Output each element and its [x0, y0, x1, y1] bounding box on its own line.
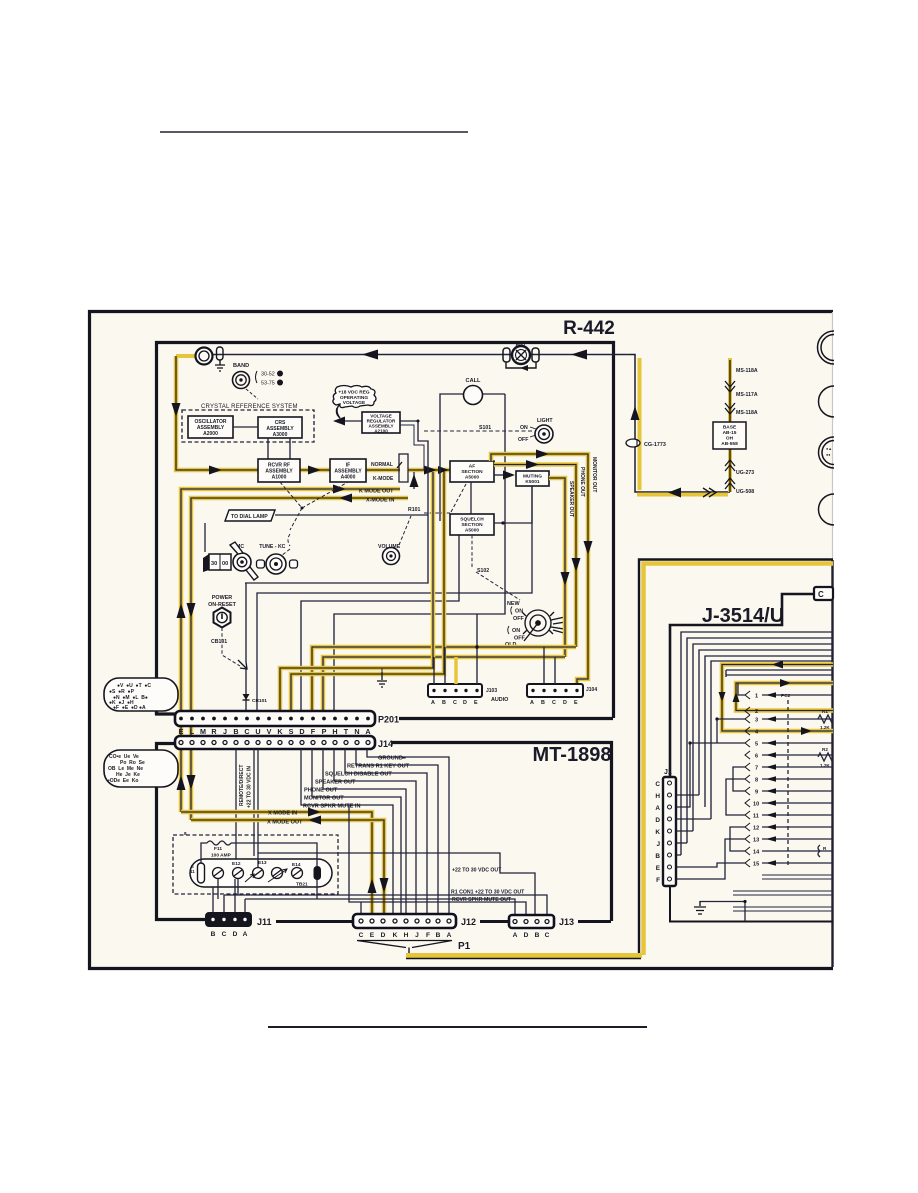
svg-text:•ODe Ee Ko: •ODe Ee Ko — [108, 778, 138, 784]
svg-text:POWER: POWER — [212, 595, 232, 601]
svg-text:C: C — [222, 931, 227, 938]
svg-text:13: 13 — [753, 838, 759, 844]
svg-text:F: F — [426, 932, 430, 939]
svg-text:15: 15 — [753, 862, 759, 868]
svg-text:⎓: ⎓ — [402, 756, 406, 761]
svg-text:K: K — [655, 829, 660, 836]
svg-text:B: B — [655, 853, 660, 860]
svg-text:C: C — [453, 700, 457, 706]
svg-text:E: E — [179, 727, 184, 736]
svg-text:TB21: TB21 — [296, 882, 308, 888]
svg-text:S102: S102 — [477, 568, 489, 574]
svg-text:J103: J103 — [486, 688, 497, 694]
svg-text:AUDIO: AUDIO — [491, 697, 508, 703]
svg-text:NEW: NEW — [507, 601, 520, 607]
svg-text:TUNE - KC: TUNE - KC — [252, 544, 286, 550]
svg-text:MS-118A: MS-118A — [736, 410, 758, 416]
svg-text:●F ●E ●D ●A: ●F ●E ●D ●A — [113, 705, 146, 711]
svg-text:C: C — [655, 781, 660, 788]
svg-text:D: D — [381, 932, 386, 939]
svg-text:6: 6 — [755, 754, 758, 760]
svg-text:PC2: PC2 — [781, 693, 791, 699]
svg-text:V: V — [267, 727, 272, 736]
svg-text:H: H — [655, 793, 660, 800]
svg-text:SQUELCH DISABLE OUT: SQUELCH DISABLE OUT — [325, 772, 392, 778]
svg-text:00: 00 — [222, 561, 228, 567]
svg-text:REMOTE/DIRECT: REMOTE/DIRECT — [239, 765, 245, 806]
svg-text:D: D — [463, 700, 467, 706]
svg-text:A3000: A3000 — [273, 432, 288, 438]
svg-text:MT-1898: MT-1898 — [533, 744, 612, 766]
svg-text:RCVR SPKR MUTE IN: RCVR SPKR MUTE IN — [303, 804, 361, 810]
svg-text:NORMAL: NORMAL — [371, 462, 393, 468]
svg-text:H: H — [332, 727, 337, 736]
svg-text:L: L — [190, 727, 195, 736]
svg-text:VOLTAGE: VOLTAGE — [343, 400, 366, 406]
svg-text:CR101: CR101 — [252, 698, 267, 704]
svg-text:10: 10 — [753, 802, 759, 808]
svg-text:UG-508: UG-508 — [736, 489, 754, 495]
svg-text:E: E — [370, 932, 375, 939]
svg-text:LIGHT: LIGHT — [537, 418, 553, 424]
svg-text:OFF: OFF — [514, 636, 525, 642]
svg-text:A: A — [447, 932, 452, 939]
svg-text:C: C — [552, 700, 556, 706]
svg-text:A2100: A2100 — [374, 429, 388, 434]
svg-text:P1: P1 — [458, 941, 471, 952]
svg-text:SECTION: SECTION — [461, 522, 483, 528]
svg-text:S: S — [289, 727, 294, 736]
svg-text:A: A — [243, 931, 248, 938]
svg-text:RETRANS R1 KEY OUT: RETRANS R1 KEY OUT — [347, 764, 410, 770]
svg-text:R: R — [211, 727, 217, 736]
svg-text:K: K — [393, 932, 398, 939]
svg-text:P: P — [322, 727, 327, 736]
svg-text:B: B — [278, 381, 281, 386]
svg-text:ON: ON — [512, 628, 520, 634]
svg-text:J1: J1 — [664, 769, 672, 776]
svg-text:D: D — [233, 931, 238, 938]
svg-text:H: H — [404, 932, 409, 939]
svg-text:D: D — [524, 932, 529, 939]
svg-text:K: K — [277, 727, 283, 736]
svg-text:D: D — [563, 700, 567, 706]
svg-text:RCVR SPKR MUTE OUT: RCVR SPKR MUTE OUT — [452, 897, 512, 903]
svg-text:C: C — [545, 932, 550, 939]
svg-text:CALL: CALL — [466, 378, 481, 384]
svg-text:E14: E14 — [292, 862, 301, 868]
svg-text:N: N — [354, 727, 359, 736]
svg-text:A2000: A2000 — [203, 431, 218, 437]
svg-text:1.2K: 1.2K — [820, 763, 830, 768]
svg-text:OFF: OFF — [513, 616, 524, 622]
svg-text:A: A — [365, 727, 370, 736]
svg-text:R2: R2 — [822, 747, 828, 752]
svg-text:J: J — [415, 932, 419, 939]
svg-text:1: 1 — [755, 694, 758, 700]
svg-text:OH: OH — [726, 436, 734, 442]
svg-text:BASE: BASE — [723, 425, 737, 431]
svg-text:J: J — [656, 841, 660, 848]
svg-text:A4000: A4000 — [341, 475, 356, 481]
svg-text:C: C — [818, 590, 824, 599]
svg-text:R1 CON1 +22 TO 30 VDC OUT: R1 CON1 +22 TO 30 VDC OUT — [451, 890, 525, 896]
svg-text:100 AMP: 100 AMP — [211, 853, 232, 859]
svg-text:7: 7 — [755, 766, 758, 772]
svg-text:AF: AF — [469, 464, 475, 470]
svg-text:OFF: OFF — [518, 437, 528, 443]
svg-text:A: A — [431, 700, 435, 706]
svg-text:+18 VDC REG: +18 VDC REG — [338, 390, 370, 396]
svg-text:R1: R1 — [822, 709, 828, 714]
svg-text:MONITOR OUT: MONITOR OUT — [591, 457, 597, 492]
svg-text:B: B — [541, 700, 545, 706]
svg-text:B: B — [436, 932, 441, 939]
svg-text:8: 8 — [184, 831, 187, 836]
svg-text:CRYSTAL REFERENCE SYSTEM: CRYSTAL REFERENCE SYSTEM — [201, 404, 298, 410]
svg-text:30-52: 30-52 — [261, 372, 275, 378]
svg-text:J14: J14 — [378, 739, 393, 749]
svg-text:UG-273: UG-273 — [736, 470, 754, 476]
svg-text:SQUELCH: SQUELCH — [460, 517, 484, 523]
svg-text:11: 11 — [753, 814, 759, 820]
svg-text:SECTION: SECTION — [461, 469, 483, 475]
svg-text:A1000: A1000 — [272, 475, 287, 481]
svg-text:30: 30 — [211, 561, 217, 567]
svg-text:U: U — [255, 727, 260, 736]
svg-text:M: M — [200, 727, 206, 736]
svg-text:●●: ●● — [826, 453, 831, 457]
svg-text:J12: J12 — [461, 917, 476, 927]
svg-text:A5000: A5000 — [465, 528, 479, 534]
svg-text:P201: P201 — [378, 715, 399, 725]
svg-text:AB-15: AB-15 — [723, 430, 737, 436]
svg-text:TO DIAL LAMP: TO DIAL LAMP — [231, 514, 268, 520]
svg-text:B: B — [211, 931, 216, 938]
svg-text:CG-1773: CG-1773 — [644, 442, 666, 448]
svg-text:A: A — [513, 932, 518, 939]
svg-text:D: D — [655, 817, 660, 824]
svg-text:CB101: CB101 — [211, 639, 227, 645]
svg-text:E: E — [574, 700, 578, 706]
svg-text:MS-118A: MS-118A — [736, 368, 758, 374]
svg-text:K-MODE: K-MODE — [373, 476, 394, 482]
svg-text:BAND: BAND — [233, 363, 249, 369]
svg-text:12: 12 — [753, 826, 759, 832]
svg-text:PHONE OUT: PHONE OUT — [579, 467, 585, 497]
svg-text:MS-117A: MS-117A — [736, 392, 758, 398]
svg-text:K5001: K5001 — [525, 479, 539, 485]
svg-text:F11: F11 — [214, 846, 222, 852]
svg-text:E: E — [656, 865, 661, 872]
svg-text:E: E — [474, 700, 478, 706]
svg-text:MUTING: MUTING — [523, 474, 542, 480]
svg-text:R-442: R-442 — [563, 318, 615, 339]
svg-text:53-75: 53-75 — [261, 381, 275, 387]
svg-text:SPEAKER OUT: SPEAKER OUT — [568, 481, 574, 517]
svg-text:X MODE IN: X MODE IN — [268, 811, 297, 817]
svg-text:F: F — [311, 727, 316, 736]
svg-text:B: B — [442, 700, 446, 706]
svg-text:E12: E12 — [232, 861, 241, 867]
svg-text:GROUND: GROUND — [378, 756, 403, 762]
svg-text:2: 2 — [755, 709, 758, 715]
svg-text:OPERATING: OPERATING — [340, 395, 368, 401]
svg-text:A: A — [278, 372, 281, 377]
svg-text:A5000: A5000 — [465, 475, 479, 481]
svg-text:B: B — [233, 727, 238, 736]
svg-text:J11: J11 — [257, 917, 272, 927]
svg-text:X-MODE IN: X-MODE IN — [366, 498, 395, 504]
svg-text:+22 TO 30 VDC OUT: +22 TO 30 VDC OUT — [452, 868, 502, 874]
svg-text:+22 TO 30 VDC IN: +22 TO 30 VDC IN — [247, 766, 253, 808]
svg-text:C: C — [359, 932, 364, 939]
svg-text:14: 14 — [753, 850, 760, 856]
svg-text:●▲: ●▲ — [826, 447, 832, 451]
svg-text:S101: S101 — [479, 425, 491, 431]
svg-text:J104: J104 — [586, 687, 597, 693]
svg-text:5: 5 — [755, 742, 758, 748]
svg-text:AB-558: AB-558 — [721, 441, 738, 447]
svg-text:PHONE OUT: PHONE OUT — [304, 788, 338, 794]
svg-text:X MODE OUT: X MODE OUT — [267, 820, 303, 826]
svg-text:3: 3 — [755, 718, 758, 724]
svg-text:E13: E13 — [258, 860, 267, 866]
svg-text:8: 8 — [755, 778, 758, 784]
svg-text:D: D — [299, 727, 304, 736]
svg-text:F: F — [656, 877, 660, 884]
svg-text:A: A — [530, 700, 534, 706]
svg-text:J: J — [223, 727, 227, 736]
svg-text:B: B — [535, 932, 540, 939]
svg-text:11: 11 — [190, 869, 195, 874]
svg-text:C: C — [244, 727, 249, 736]
svg-text:1.2K: 1.2K — [820, 725, 830, 730]
svg-text:T: T — [344, 727, 349, 736]
svg-text:ON: ON — [515, 609, 523, 615]
svg-text:A: A — [655, 805, 660, 812]
svg-text:J13: J13 — [559, 917, 574, 927]
svg-text:9: 9 — [755, 790, 758, 796]
svg-text:SPEAKER OUT: SPEAKER OUT — [315, 780, 356, 786]
svg-text:K MODE OUT: K MODE OUT — [359, 489, 394, 495]
svg-text:ON: ON — [520, 425, 528, 431]
svg-text:MONITOR OUT: MONITOR OUT — [304, 796, 344, 802]
svg-text:R101: R101 — [408, 507, 421, 513]
